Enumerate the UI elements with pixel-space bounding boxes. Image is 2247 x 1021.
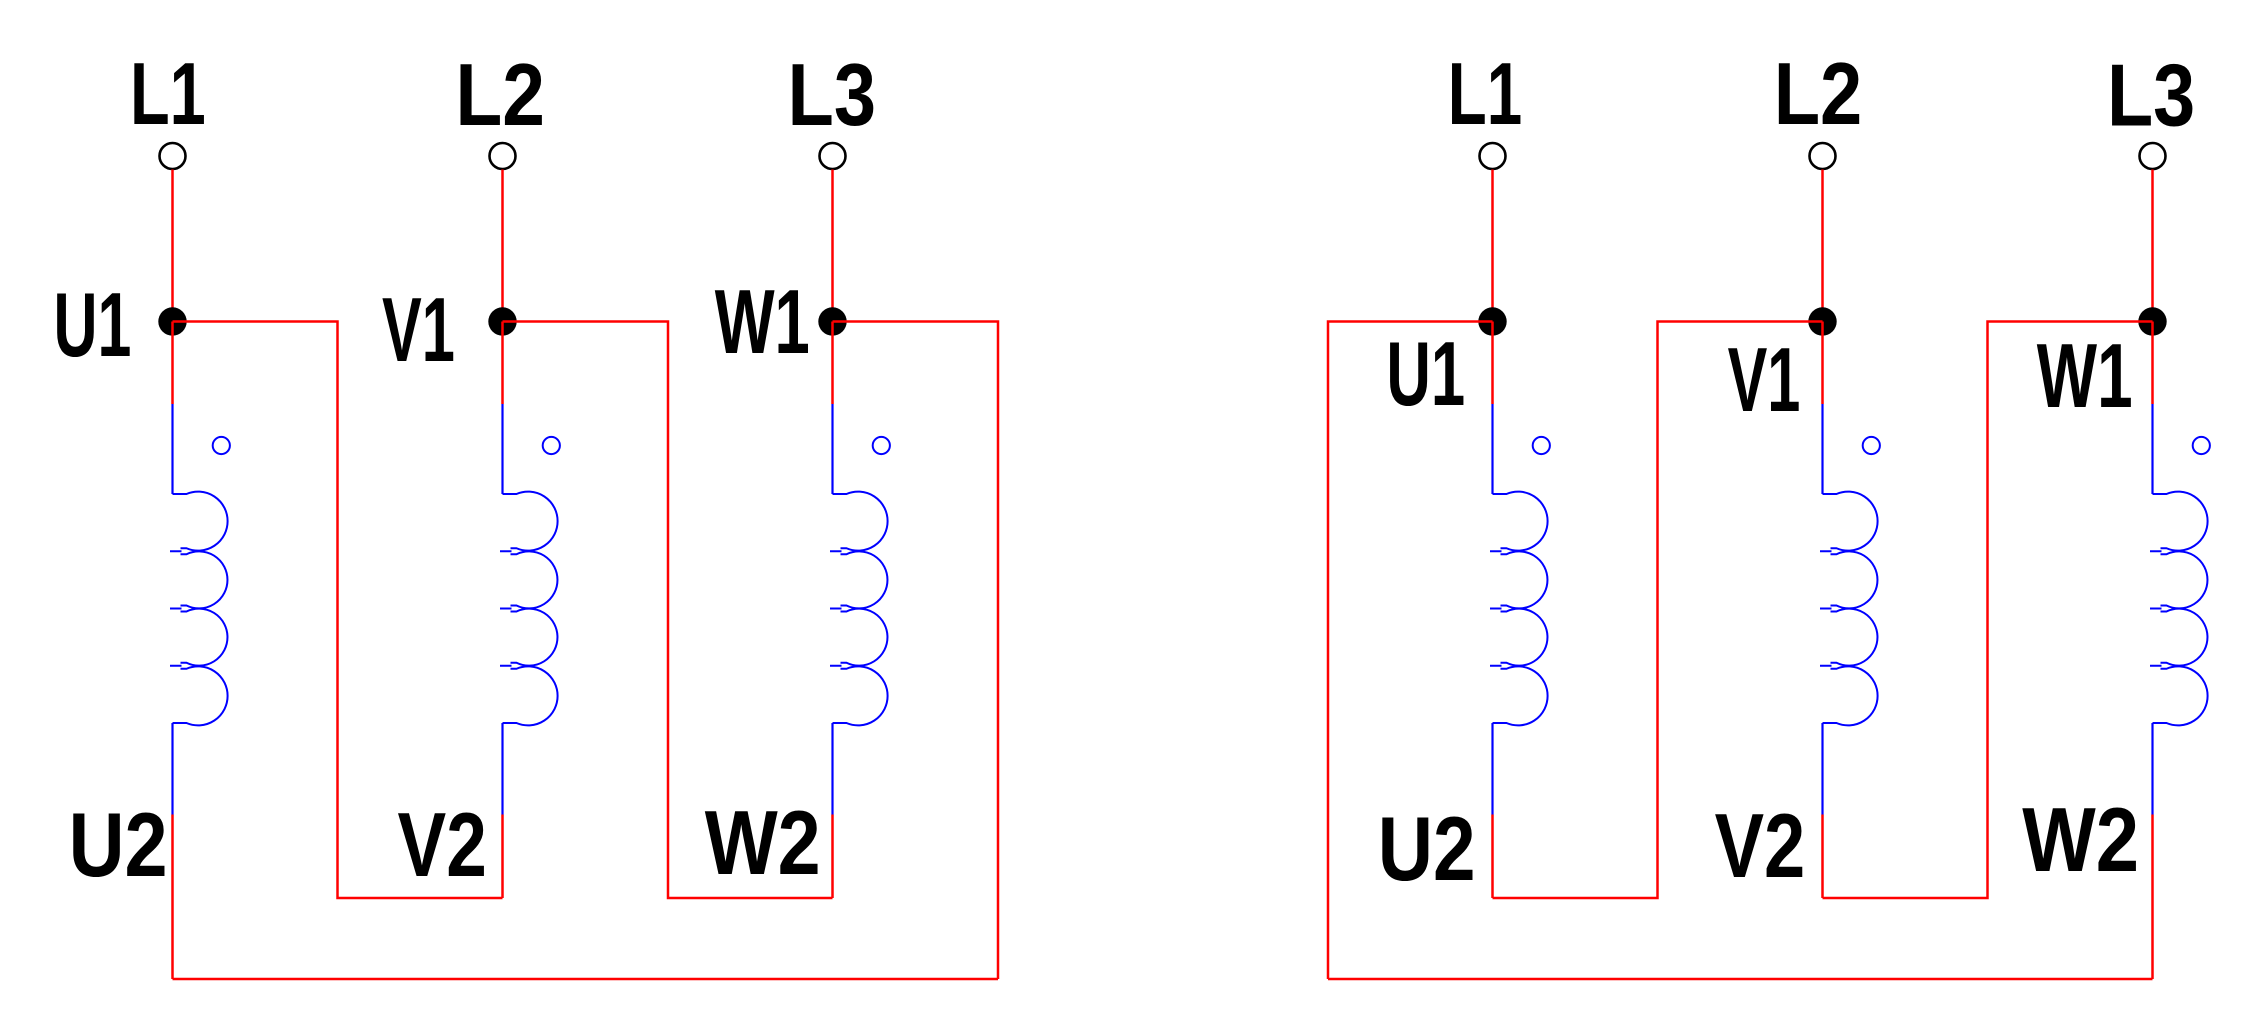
inductor winding U1-U2 [1493,492,1548,726]
wire coil lead bottom (blue) [1491,723,1493,815]
wire coil lead bottom (blue) [2151,723,2153,815]
wire node W1 to coil (red) [831,322,834,405]
wire node V1 to coil (red) [1821,322,1824,405]
wire W2 red lead [831,815,834,899]
svg-text:W1: W1 [2037,326,2133,427]
svg-text:L3: L3 [2107,46,2195,145]
node U1 junction dot [158,307,186,335]
terminal L3 [820,143,846,169]
svg-text:U2: U2 [69,795,168,896]
svg-text:W2: W2 [705,793,821,894]
svg-text:L3: L3 [788,45,877,144]
wire coil lead top (blue) [1491,404,1493,494]
wire L1 terminal to node U1 [171,170,174,322]
wire L3 terminal to node W1 [2151,170,2154,322]
wire V2 red lead [501,815,504,899]
inductor winding W1-W2 [2153,492,2208,726]
inductor winding V1-V2 [1823,492,1878,726]
wire bottom bus U2 to W1 branch [173,978,999,981]
wire node V1 to coil (red) [501,322,504,405]
wire W1 branch left to V2 [1823,322,2153,899]
wire coil lead bottom (blue) [171,723,173,815]
wire coil lead bottom (blue) [501,723,503,815]
svg-text:W2: W2 [2022,790,2139,891]
inductor winding W1-W2 [833,492,888,726]
svg-text:L1: L1 [1448,44,1522,143]
wire U1 branch right to V2 [173,322,503,899]
wire U2 red lead [1491,815,1494,899]
wire coil lead top (blue) [501,404,503,494]
inductor winding V1-V2 [503,492,558,726]
wire W1 branch right to bottom bus [833,322,999,980]
wire coil lead bottom (blue) [831,723,833,815]
terminal L2 [490,143,516,169]
svg-text:L2: L2 [455,45,545,144]
wire coil lead top (blue) [171,404,173,494]
svg-text:V2: V2 [398,795,487,896]
svg-text:L2: L2 [1774,44,1863,143]
svg-text:U1: U1 [1386,324,1465,425]
wire U1 branch left to bottom bus [1328,322,1493,980]
svg-text:L1: L1 [130,44,206,143]
terminal L3 [2140,143,2166,169]
polarity dot circle [1533,437,1550,454]
terminal L2 [1810,143,1836,169]
wire coil lead top (blue) [831,404,833,494]
node W1 junction dot [818,307,846,335]
svg-text:U2: U2 [1378,799,1476,900]
wire bottom bus U1 branch to W2 [1328,978,2153,981]
svg-text:V1: V1 [1728,330,1801,431]
polarity dot circle [1863,437,1880,454]
polarity dot circle [543,437,560,454]
node U1 junction dot [1478,307,1506,335]
wire V1 branch left to U2 [1493,322,1823,899]
wire L2 terminal to node V1 [501,170,504,322]
polarity dot circle [873,437,890,454]
wire L2 terminal to node V1 [1821,170,1824,322]
svg-text:U1: U1 [54,275,132,376]
terminal L1 [1480,143,1506,169]
wire V2 red lead [1821,815,1824,899]
wire node U1 to coil (red) [1491,322,1494,405]
wire coil lead top (blue) [2151,404,2153,494]
wire L3 terminal to node W1 [831,170,834,322]
inductor winding U1-U2 [173,492,228,726]
polarity dot circle [213,437,230,454]
node V1 junction dot [488,307,516,335]
wire coil lead bottom (blue) [1821,723,1823,815]
wire V1 branch right to W2 [503,322,833,899]
wire node U1 to coil (red) [171,322,174,405]
polarity dot circle [2193,437,2210,454]
wire L1 terminal to node U1 [1491,170,1494,322]
terminal L1 [160,143,186,169]
svg-text:W1: W1 [715,272,810,373]
node W1 junction dot [2138,307,2166,335]
svg-text:V1: V1 [382,280,455,381]
wire U2 lead to bottom bus [171,815,174,980]
wire coil lead top (blue) [1821,404,1823,494]
wire W2 lead to bottom bus [2151,815,2154,980]
wire node W1 to coil (red) [2151,322,2154,405]
node V1 junction dot [1808,307,1836,335]
svg-text:V2: V2 [1715,796,1806,897]
